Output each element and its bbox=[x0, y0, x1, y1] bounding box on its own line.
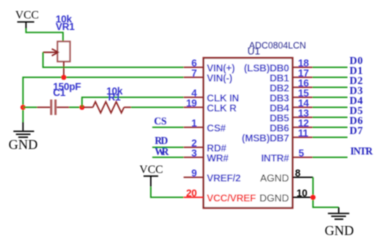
node junction C1/GND rail bbox=[20, 105, 25, 110]
wire CS net bbox=[152, 126, 183, 128]
wire VIN(-) net bbox=[23, 77, 184, 107]
svg-text:8: 8 bbox=[295, 168, 301, 179]
svg-text:VCC/VREF: VCC/VREF bbox=[207, 193, 256, 204]
svg-text:GND: GND bbox=[325, 223, 354, 238]
svg-text:10: 10 bbox=[297, 188, 308, 199]
pin 16 stub bbox=[293, 86, 313, 88]
wire CLK R net bbox=[131, 106, 184, 108]
pin 1 stub bbox=[184, 126, 204, 128]
pin 11 stub bbox=[293, 136, 313, 138]
capacitor C1 bbox=[23, 100, 81, 116]
pin 13 stub bbox=[293, 116, 313, 118]
svg-text:DGND: DGND bbox=[260, 193, 289, 204]
ground GND (left) bbox=[9, 107, 38, 152]
node junction pin10/GND bbox=[310, 195, 315, 200]
pin 2 stub bbox=[184, 146, 204, 148]
pin 17 stub bbox=[293, 76, 313, 78]
svg-text:C1: C1 bbox=[53, 88, 66, 99]
node junction VR1/VIN(-) bbox=[61, 75, 66, 80]
svg-text:VR1: VR1 bbox=[56, 22, 75, 33]
pin 12 stub bbox=[293, 126, 313, 128]
svg-text:VCC: VCC bbox=[139, 164, 163, 176]
svg-text:CS#: CS# bbox=[207, 123, 226, 134]
wire D7 net bbox=[313, 136, 348, 138]
power symbol VCC (top-left) bbox=[15, 10, 39, 29]
svg-text:VREF/2: VREF/2 bbox=[207, 173, 241, 184]
svg-text:7: 7 bbox=[191, 68, 197, 79]
op-amp U1 body (ADC0804LCN) bbox=[204, 58, 293, 208]
power symbol VCC (bottom, pin 20) bbox=[139, 164, 163, 187]
pin 10 stub bbox=[293, 196, 314, 198]
pin 3 stub bbox=[184, 156, 204, 158]
pin 14 stub bbox=[293, 106, 313, 108]
potentiometer VR1 bbox=[43, 42, 70, 78]
wire CLK IN net bbox=[82, 97, 184, 107]
svg-text:WR#: WR# bbox=[207, 153, 229, 164]
svg-text:R1: R1 bbox=[108, 92, 121, 103]
svg-text:D7: D7 bbox=[350, 126, 363, 137]
pin 20 stub bbox=[184, 196, 204, 198]
pin 15 stub bbox=[293, 96, 313, 98]
wire WR net bbox=[152, 156, 183, 158]
svg-text:GND: GND bbox=[9, 137, 38, 152]
svg-text:1: 1 bbox=[191, 118, 197, 129]
wire RD net bbox=[152, 146, 183, 148]
wire D4 net bbox=[313, 106, 348, 108]
svg-text:AGND: AGND bbox=[260, 173, 289, 184]
wire VCC to pin 20 bbox=[151, 187, 184, 198]
wire D1 net bbox=[313, 76, 348, 78]
svg-text:3: 3 bbox=[191, 148, 197, 159]
pin 7 stub bbox=[184, 76, 204, 78]
pin 6 stub bbox=[184, 66, 204, 68]
wire D0 net bbox=[313, 66, 348, 68]
svg-text:U1: U1 bbox=[247, 47, 260, 58]
wire D6 net bbox=[313, 126, 348, 128]
svg-text:(MSB)DB7: (MSB)DB7 bbox=[242, 133, 290, 144]
wire wiper down to VIN(+) net bbox=[43, 52, 184, 67]
wire AGND to DGND bbox=[313, 177, 339, 207]
pin 9 stub bbox=[184, 176, 204, 178]
wire D2 net bbox=[313, 86, 348, 88]
svg-text:INTR#: INTR# bbox=[261, 153, 290, 164]
pin 8 stub bbox=[293, 176, 314, 178]
svg-text:RD: RD bbox=[155, 136, 168, 147]
pin 18 stub bbox=[293, 66, 313, 68]
svg-text:VCC: VCC bbox=[15, 10, 39, 22]
svg-text:9: 9 bbox=[191, 168, 197, 179]
pin 4 stub bbox=[184, 96, 204, 98]
svg-text:WR: WR bbox=[155, 147, 170, 158]
pin 19 stub bbox=[184, 106, 204, 108]
pin 5 stub bbox=[293, 156, 313, 158]
svg-text:CLK R: CLK R bbox=[207, 103, 238, 114]
wire D5 net bbox=[313, 116, 348, 118]
svg-text:VIN(-): VIN(-) bbox=[207, 73, 232, 84]
svg-text:11: 11 bbox=[298, 128, 309, 139]
wire D3 net bbox=[313, 96, 348, 98]
wire VCC to VR1 top bbox=[26, 29, 63, 42]
svg-text:5: 5 bbox=[299, 148, 305, 159]
svg-text:19: 19 bbox=[186, 98, 197, 109]
ground GND (right) bbox=[325, 207, 354, 238]
node junction C1/R1/CLK bbox=[79, 105, 84, 110]
wire INTR net bbox=[313, 156, 348, 158]
svg-text:CS: CS bbox=[154, 117, 167, 128]
svg-text:INTR: INTR bbox=[350, 147, 373, 158]
resistor R1 bbox=[84, 102, 131, 113]
svg-text:20: 20 bbox=[186, 188, 197, 199]
